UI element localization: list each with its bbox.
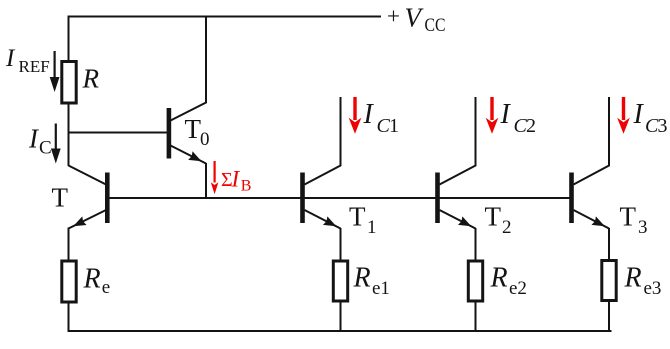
wire left column top (Vcc to R) [68, 16, 70, 63]
label I_C3 [633, 99, 668, 137]
transistor T3 [569, 173, 609, 231]
svg-text:e: e [102, 277, 110, 298]
svg-text:e3: e3 [644, 278, 662, 299]
svg-text:3: 3 [658, 115, 668, 137]
resistor Re2 [468, 261, 482, 301]
transistor T0 [167, 108, 206, 165]
svg-text:e2: e2 [509, 278, 527, 299]
wire T3 emitter to Re3 [608, 228, 610, 261]
svg-text:REF: REF [19, 57, 50, 76]
current arrow I_C1 (red) [349, 97, 362, 134]
wire base bus [107, 197, 572, 199]
wire T2 emitter to Re2 [475, 228, 477, 262]
wire bottom rail [68, 330, 612, 332]
resistor R [62, 62, 76, 104]
current arrow I_C2 (red) [486, 97, 499, 134]
wire node to T0 base [69, 132, 167, 134]
svg-text:CC: CC [425, 15, 446, 36]
svg-text:3: 3 [638, 217, 648, 238]
svg-text:T: T [485, 201, 502, 231]
svg-text:R: R [353, 263, 371, 294]
wire R to T collector node [68, 103, 70, 166]
svg-text:R: R [624, 263, 642, 294]
label I_REF [5, 45, 50, 76]
label T3 [620, 201, 648, 238]
wire top rail [69, 16, 382, 18]
label Re [83, 264, 111, 299]
current arrow I_REF [50, 51, 60, 92]
svg-text:0: 0 [200, 129, 210, 150]
svg-text:2: 2 [502, 217, 512, 238]
current arrow I_C3 (red) [617, 97, 630, 134]
svg-text:T: T [52, 183, 69, 213]
transistor T [69, 166, 110, 231]
wire T1 emitter to Re1 [340, 228, 342, 262]
svg-text:B: B [241, 178, 252, 195]
svg-text:T: T [185, 114, 202, 144]
transistor T1 [300, 173, 340, 231]
svg-text:e1: e1 [372, 278, 390, 299]
svg-text:R: R [83, 264, 101, 295]
wire T3 collector [574, 97, 610, 185]
label sum I_B (red) [221, 166, 251, 194]
current arrow sum I_B (red) [211, 161, 219, 194]
svg-text:T: T [349, 201, 366, 231]
label Re1 [353, 263, 390, 300]
label Re3 [624, 263, 662, 300]
wire T1 collector [305, 97, 341, 185]
svg-text:I: I [633, 99, 645, 130]
label T1 [349, 201, 377, 238]
svg-text:R: R [490, 263, 508, 294]
resistor Re3 [602, 261, 616, 301]
svg-text:I: I [231, 166, 241, 191]
label T2 [485, 201, 512, 238]
svg-text:I: I [363, 99, 375, 130]
svg-text:2: 2 [526, 115, 536, 137]
svg-text:T: T [620, 201, 637, 231]
wire Re to bottom rail [68, 302, 70, 333]
wire T emitter to Re [68, 228, 70, 262]
svg-text:I: I [500, 99, 512, 130]
transistor T2 [435, 173, 475, 231]
svg-text:1: 1 [389, 115, 399, 137]
wire Re3 to bottom rail [608, 301, 610, 332]
wire Re2 to bottom rail [475, 301, 477, 332]
label Re2 [490, 263, 527, 300]
svg-text:+: + [387, 4, 400, 29]
label I_C1 [363, 99, 400, 137]
svg-text:I: I [5, 45, 16, 72]
label I_C2 [500, 99, 537, 137]
svg-text:V: V [405, 3, 425, 33]
label I_C [28, 124, 52, 159]
resistor Re1 [333, 261, 347, 301]
label T0 [185, 114, 210, 150]
svg-text:1: 1 [367, 217, 377, 238]
resistor Re [62, 261, 76, 302]
svg-text:C: C [39, 138, 52, 159]
label +Vcc [387, 3, 446, 37]
svg-text:R: R [82, 64, 100, 94]
wire T0 collector to Vcc [171, 17, 207, 121]
wire T2 collector [440, 97, 476, 185]
current arrow I_C [51, 124, 61, 164]
wire Re1 to bottom rail [340, 301, 342, 331]
wire T0 emitter down to bus [205, 163, 207, 198]
